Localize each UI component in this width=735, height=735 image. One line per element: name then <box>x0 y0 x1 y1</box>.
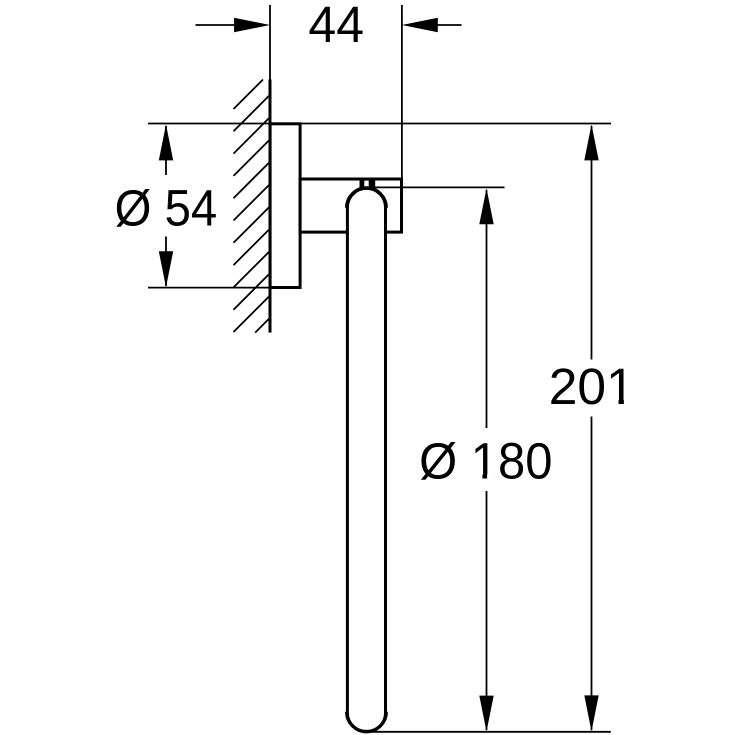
svg-text:44: 44 <box>308 0 364 53</box>
svg-text:Ø 180: Ø 180 <box>419 433 552 490</box>
svg-text:Ø 54: Ø 54 <box>115 180 217 237</box>
svg-text:201: 201 <box>549 358 635 415</box>
